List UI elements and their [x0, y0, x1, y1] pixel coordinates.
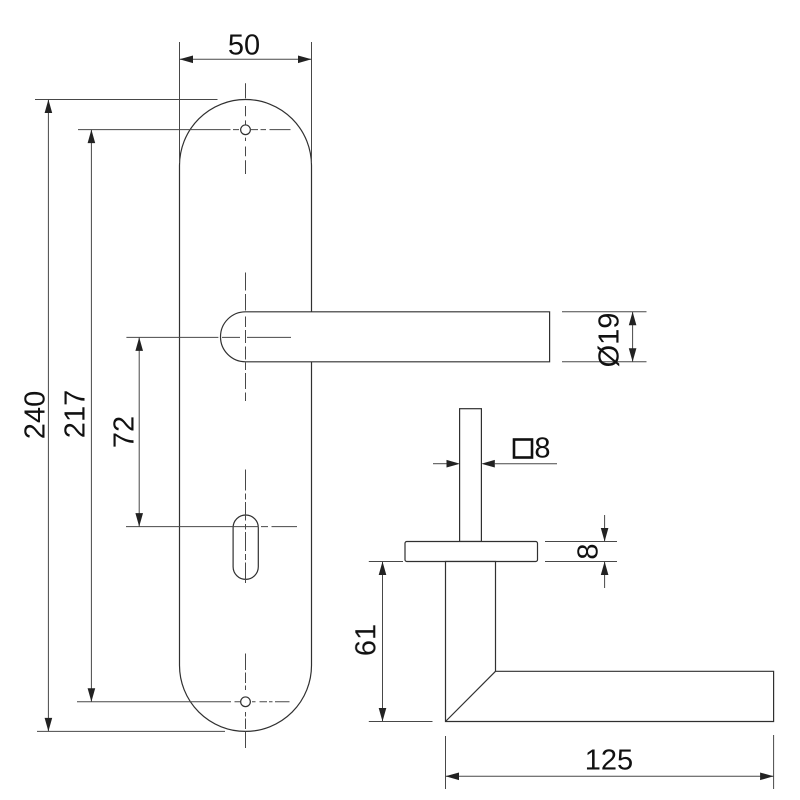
svg-text:8: 8	[573, 543, 605, 559]
svg-text:72: 72	[108, 416, 140, 448]
svg-text:61: 61	[350, 624, 382, 656]
svg-text:Ø19: Ø19	[594, 313, 626, 368]
svg-text:240: 240	[19, 391, 51, 439]
svg-text:50: 50	[228, 30, 260, 62]
svg-text:8: 8	[534, 432, 550, 464]
svg-text:125: 125	[585, 745, 633, 777]
svg-text:217: 217	[59, 390, 91, 438]
